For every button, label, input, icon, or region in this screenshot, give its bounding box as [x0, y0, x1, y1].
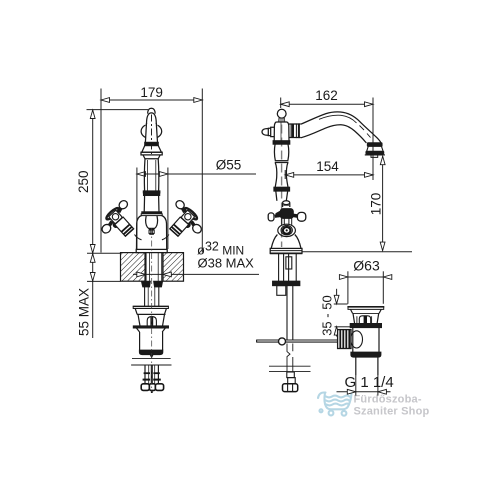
svg-text:35 - 50: 35 - 50 — [320, 295, 335, 335]
svg-text:55 MAX: 55 MAX — [77, 288, 92, 336]
svg-text:179: 179 — [140, 85, 163, 100]
svg-text:250: 250 — [76, 170, 91, 193]
svg-text:154: 154 — [316, 159, 339, 174]
svg-text:170: 170 — [368, 193, 383, 216]
svg-text:Szaniter Shop: Szaniter Shop — [354, 406, 430, 418]
svg-text:162: 162 — [315, 88, 338, 103]
svg-text:Fürdőszoba-: Fürdőszoba- — [354, 393, 422, 405]
svg-text:G 1 1/4: G 1 1/4 — [345, 374, 394, 391]
svg-text:Ø55: Ø55 — [216, 157, 242, 172]
svg-text:Ø63: Ø63 — [353, 257, 380, 273]
svg-text:Ø38 MAX: Ø38 MAX — [198, 255, 255, 270]
